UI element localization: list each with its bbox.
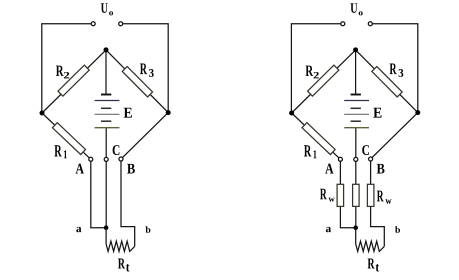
terminal: output terminal left (left two-wire circuit) (91, 22, 95, 26)
wire: top node to battery (left two-wire circuit) (105, 50, 107, 94)
resistor R3 (left two-wire circuit) (122, 66, 152, 96)
terminal B (left two-wire circuit) (119, 157, 123, 161)
wire: bridge arm lower-left (R1 arm, left two-wire circuit) (42, 113, 91, 159)
resistor Rw on wire from B (right three-wire circuit) (367, 184, 374, 206)
node: bridge left node (left two-wire circuit) (40, 111, 45, 116)
label B (right three-wire circuit) (377, 164, 385, 174)
label Uo output voltage (left two-wire circuit) (101, 3, 113, 15)
terminal C (right three-wire circuit) (354, 157, 358, 161)
wire: bridge arm upper-right (R3 arm, left two-wire circuit) (106, 50, 168, 113)
label R1 (right three-wire circuit) (304, 145, 317, 158)
terminal C (left two-wire circuit) (104, 157, 108, 161)
wire: bridge arm lower-right to terminal B (right three-wire circuit) (371, 113, 418, 159)
label Rw right (right three-wire circuit) (377, 191, 392, 204)
terminal: output terminal right (left two-wire circuit) (119, 22, 123, 26)
node: junction a (left two-wire circuit) (104, 225, 109, 230)
node: junction a (right three-wire circuit) (353, 225, 358, 230)
battery E plates (right three-wire circuit) (344, 95, 369, 128)
wire: terminal B down to Rt right end (right three-wire circuit) (371, 159, 385, 246)
battery E plates (left two-wire circuit) (95, 95, 120, 128)
resistor R2 (left two-wire circuit) (58, 65, 89, 96)
wire: terminal B down to Rt right end (left two-wire circuit) (121, 159, 135, 246)
node: bridge top node (left two-wire circuit) (104, 47, 109, 52)
wire: bridge arm lower-right to terminal B (left two-wire circuit) (121, 113, 168, 159)
label b (left two-wire circuit) (146, 226, 151, 233)
wire: bridge arm upper-left (R2 arm, right three-wire circuit) (292, 50, 356, 113)
resistor Rw on middle wire from C (right three-wire circuit) (353, 184, 360, 206)
label C (left two-wire circuit) (113, 145, 120, 155)
wire: top node to battery (right three-wire circuit) (355, 50, 357, 94)
terminal A (left two-wire circuit) (89, 157, 93, 161)
label Rw left (right three-wire circuit) (320, 189, 335, 202)
terminal B (right three-wire circuit) (369, 157, 373, 161)
label R3 (right three-wire circuit) (390, 64, 404, 77)
wire: battery to terminal C and down (left two-wire circuit) (105, 128, 107, 227)
wire: battery to terminal C and down (right three-wire circuit) (355, 128, 357, 227)
wire: output lead left + left side vertical (right three-wire circuit) (291, 24, 340, 113)
label B (left two-wire circuit) (127, 164, 135, 174)
wire: bridge arm lower-left (R1 arm, right three-wire circuit) (292, 113, 341, 159)
node: bridge right node (left two-wire circuit) (166, 110, 171, 115)
wire: output lead right + right side vertical (left two-wire circuit) (123, 24, 168, 113)
label R2 (left two-wire circuit) (56, 66, 69, 79)
node: bridge left node (right three-wire circuit) (289, 111, 294, 116)
wire: bridge arm upper-right (R3 arm, right three-wire circuit) (356, 50, 418, 113)
label R2 (right three-wire circuit) (306, 66, 319, 79)
label A (right three-wire circuit) (325, 164, 333, 174)
label C (right three-wire circuit) (362, 145, 369, 155)
label E battery (right three-wire circuit) (373, 108, 381, 118)
resistor R1 (left two-wire circuit) (52, 123, 85, 155)
label A (left two-wire circuit) (76, 164, 84, 174)
resistor R2 (right three-wire circuit) (308, 65, 339, 96)
resistor R3 (right three-wire circuit) (372, 66, 402, 96)
node: bridge top node (right three-wire circuit) (353, 47, 358, 52)
wire: junction down + resistor Rt zigzag (right three-wire circuit) (356, 228, 385, 252)
wire: junction down + resistor Rt zigzag (left two-wire circuit) (106, 228, 135, 252)
label a (right three-wire circuit) (326, 227, 331, 232)
terminal A (right three-wire circuit) (338, 157, 342, 161)
terminal: output terminal left (right three-wire circuit) (341, 22, 345, 26)
label R1 (left two-wire circuit) (54, 145, 67, 158)
terminal: output terminal right (right three-wire circuit) (368, 22, 372, 26)
wire: terminal A down to junction a (right three-wire circuit) (340, 159, 355, 227)
wire: bridge arm upper-left (R2 arm, left two-wire circuit) (42, 50, 106, 113)
label Rt thermal resistor (right three-wire circuit) (368, 259, 380, 272)
wire: output lead left + left side vertical (left two-wire circuit) (42, 24, 91, 113)
wire: output lead right + right side vertical (right three-wire circuit) (373, 24, 418, 113)
label Rt thermal resistor (left two-wire circuit) (118, 259, 130, 272)
label E battery (left two-wire circuit) (124, 108, 132, 118)
label Uo output voltage (right three-wire circuit) (351, 3, 363, 15)
node: bridge right node (right three-wire circuit) (415, 110, 420, 115)
label b (right three-wire circuit) (395, 226, 400, 233)
resistor Rw on wire from A (right three-wire circuit) (337, 184, 344, 206)
label a (left two-wire circuit) (76, 227, 81, 232)
resistor R1 (right three-wire circuit) (302, 123, 335, 155)
wire: terminal A down to junction a (left two-wire circuit) (91, 159, 106, 227)
label R3 (left two-wire circuit) (140, 64, 154, 77)
